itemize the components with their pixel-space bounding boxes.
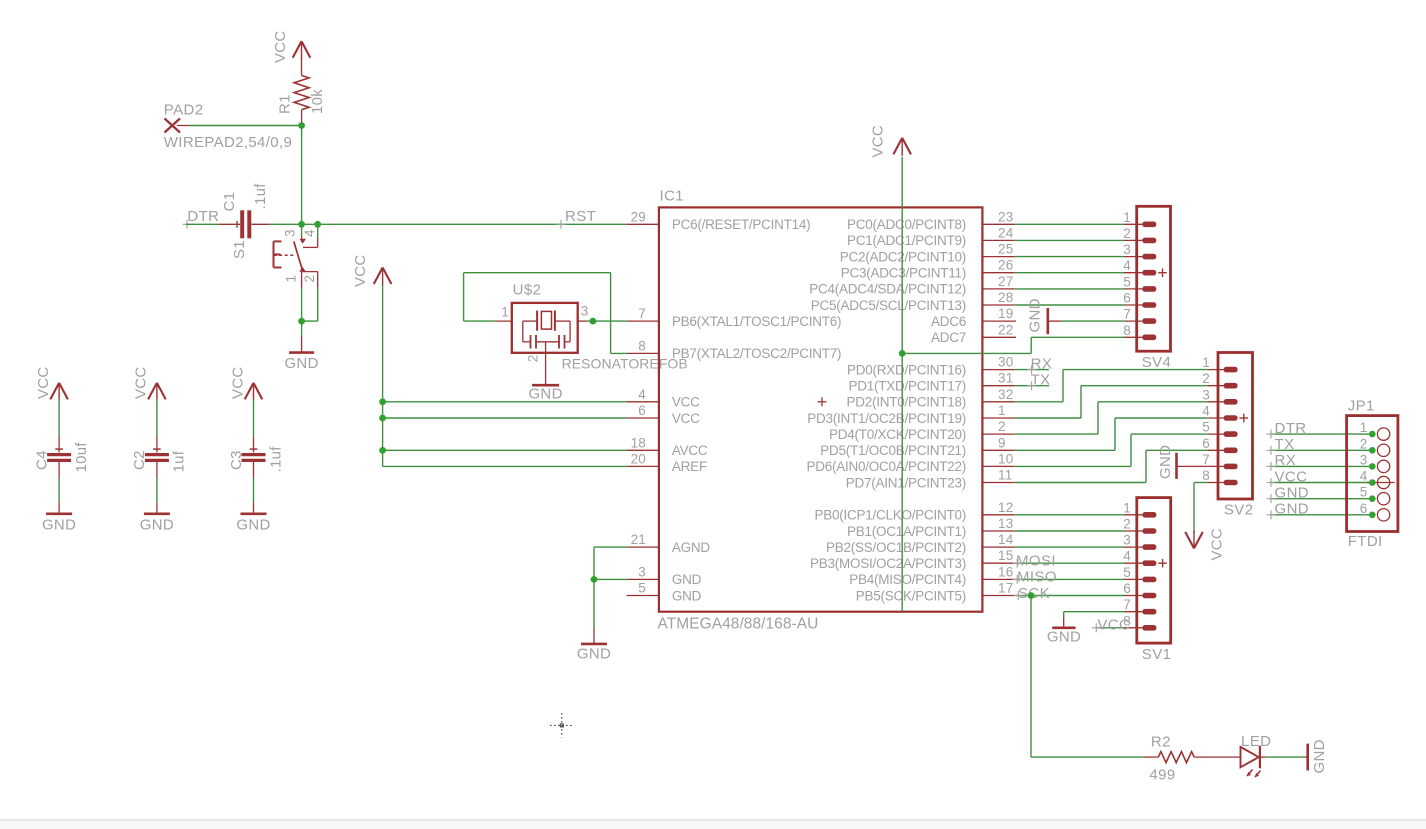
svg-text:MISO: MISO (1017, 569, 1057, 586)
svg-text:GND: GND (528, 385, 562, 402)
svg-text:FTDI: FTDI (1348, 533, 1383, 550)
svg-text:12: 12 (998, 500, 1013, 515)
svg-text:3: 3 (1123, 533, 1131, 548)
svg-text:PC3(ADC3/PCINT11): PC3(ADC3/PCINT11) (841, 266, 966, 281)
svg-text:PB1(OC1A/PCINT1): PB1(OC1A/PCINT1) (847, 524, 966, 539)
svg-text:VCC: VCC (229, 366, 246, 399)
svg-text:.1uf: .1uf (252, 183, 269, 210)
svg-text:GND: GND (1047, 629, 1081, 646)
svg-text:PB0(ICP1/CLKO/PCINT0): PB0(ICP1/CLKO/PCINT0) (814, 508, 966, 523)
svg-text:29: 29 (631, 209, 646, 224)
svg-text:AREF: AREF (672, 459, 707, 474)
svg-text:4: 4 (1123, 258, 1131, 273)
svg-text:6: 6 (638, 403, 646, 418)
svg-text:4: 4 (1360, 469, 1368, 484)
svg-text:20: 20 (631, 451, 646, 466)
svg-text:SV1: SV1 (1142, 646, 1172, 663)
svg-text:9: 9 (998, 435, 1006, 450)
svg-text:24: 24 (998, 225, 1014, 240)
svg-text:GND: GND (1275, 485, 1310, 502)
svg-text:R1: R1 (276, 94, 293, 114)
svg-text:7: 7 (1123, 307, 1131, 322)
svg-text:4: 4 (302, 229, 317, 237)
svg-text:31: 31 (998, 371, 1013, 386)
svg-text:10: 10 (998, 451, 1013, 466)
svg-text:GND: GND (140, 516, 174, 533)
svg-text:1: 1 (1202, 355, 1210, 370)
svg-text:1: 1 (1123, 210, 1131, 225)
svg-text:5: 5 (1123, 565, 1131, 580)
svg-text:S1: S1 (231, 240, 248, 259)
svg-text:AVCC: AVCC (672, 443, 708, 458)
svg-text:C1: C1 (221, 192, 238, 212)
svg-text:PC6(/RESET/PCINT14): PC6(/RESET/PCINT14) (672, 217, 811, 232)
svg-text:6: 6 (1123, 291, 1131, 306)
svg-text:13: 13 (998, 516, 1013, 531)
svg-text:5: 5 (1202, 420, 1210, 435)
svg-text:PD3(INT1/OC2B/PCINT19): PD3(INT1/OC2B/PCINT19) (807, 411, 966, 426)
svg-text:PB5(SCK/PCINT5): PB5(SCK/PCINT5) (856, 588, 966, 603)
svg-text:5: 5 (1123, 274, 1131, 289)
svg-text:PB4(MISO/PCINT4): PB4(MISO/PCINT4) (849, 572, 966, 587)
svg-text:VCC: VCC (672, 395, 700, 410)
svg-text:1uf: 1uf (171, 450, 188, 472)
svg-text:3: 3 (1123, 242, 1131, 257)
svg-text:RX: RX (1275, 452, 1297, 469)
svg-text:PC5(ADC5/SCL/PCINT13): PC5(ADC5/SCL/PCINT13) (811, 298, 966, 313)
svg-text:3: 3 (1202, 387, 1210, 402)
svg-text:4: 4 (1123, 549, 1131, 564)
svg-text:30: 30 (998, 355, 1013, 370)
svg-text:C2: C2 (131, 450, 148, 470)
svg-text:2: 2 (1123, 226, 1131, 241)
svg-text:6: 6 (1360, 501, 1368, 516)
svg-text:LED: LED (1241, 733, 1271, 750)
svg-text:4: 4 (638, 387, 646, 402)
svg-text:PD1(TXD/PCINT17): PD1(TXD/PCINT17) (848, 379, 966, 394)
svg-text:PD5(T1/OC0B/PCINT21): PD5(T1/OC0B/PCINT21) (820, 443, 966, 458)
svg-text:3: 3 (638, 564, 646, 579)
svg-text:2: 2 (1202, 371, 1210, 386)
svg-text:VCC: VCC (1275, 468, 1308, 485)
svg-text:PB3(MOSI/OC2A/PCINT3): PB3(MOSI/OC2A/PCINT3) (810, 556, 966, 571)
svg-text:U$2: U$2 (513, 282, 542, 299)
svg-text:11: 11 (998, 468, 1012, 483)
svg-text:GND: GND (672, 588, 702, 603)
svg-text:16: 16 (998, 564, 1013, 579)
svg-text:GND: GND (672, 572, 702, 587)
svg-text:GND: GND (1275, 501, 1310, 518)
svg-text:26: 26 (998, 258, 1013, 273)
svg-text:7: 7 (1202, 452, 1210, 467)
svg-text:IC1: IC1 (660, 188, 684, 205)
svg-text:PB7(XTAL2/TOSC2/PCINT7): PB7(XTAL2/TOSC2/PCINT7) (672, 346, 841, 361)
svg-text:10uf: 10uf (73, 442, 90, 473)
svg-text:8: 8 (1202, 468, 1210, 483)
svg-text:32: 32 (998, 387, 1013, 402)
svg-text:7: 7 (638, 306, 646, 321)
svg-text:GND: GND (1311, 739, 1328, 773)
svg-text:PD0(RXD/PCINT16): PD0(RXD/PCINT16) (847, 362, 966, 377)
svg-text:VCC: VCC (35, 366, 52, 399)
svg-text:8: 8 (638, 338, 646, 353)
svg-text:PAD2: PAD2 (164, 102, 204, 119)
svg-text:3: 3 (1360, 452, 1368, 467)
svg-text:VCC: VCC (133, 366, 150, 399)
svg-text:8: 8 (1123, 323, 1131, 338)
svg-text:TX: TX (1275, 436, 1295, 453)
svg-text:1: 1 (998, 403, 1006, 418)
svg-text:5: 5 (1360, 485, 1368, 500)
svg-text:JP1: JP1 (1348, 398, 1375, 415)
svg-text:WIREPAD2,54/0,9: WIREPAD2,54/0,9 (164, 134, 292, 151)
svg-text:DTR: DTR (1275, 420, 1307, 437)
svg-text:GND: GND (1026, 298, 1043, 332)
svg-text:2: 2 (1123, 517, 1131, 532)
svg-text:SV4: SV4 (1142, 354, 1172, 371)
svg-text:22: 22 (998, 322, 1013, 337)
svg-text:PB2(SS/OC1B/PCINT2): PB2(SS/OC1B/PCINT2) (826, 540, 966, 555)
svg-text:SCK: SCK (1018, 585, 1050, 602)
svg-text:PD4(T0/XCK/PCINT20): PD4(T0/XCK/PCINT20) (829, 427, 966, 442)
svg-text:18: 18 (631, 435, 646, 450)
svg-text:GND: GND (577, 646, 611, 663)
svg-text:PC0(ADC0/PCINT8): PC0(ADC0/PCINT8) (847, 217, 966, 232)
svg-text:DTR: DTR (187, 208, 219, 225)
svg-text:.1uf: .1uf (267, 446, 284, 473)
svg-text:VCC: VCC (672, 411, 700, 426)
svg-text:2: 2 (1360, 436, 1368, 451)
svg-text:14: 14 (998, 532, 1014, 547)
svg-text:6: 6 (1123, 581, 1131, 596)
svg-text:ADC7: ADC7 (931, 330, 966, 345)
svg-text:2: 2 (302, 275, 317, 283)
svg-text:27: 27 (998, 274, 1013, 289)
svg-text:28: 28 (998, 290, 1013, 305)
svg-text:RESONATOREFOB: RESONATOREFOB (562, 356, 688, 372)
svg-text:VCC: VCC (1208, 528, 1225, 561)
svg-text:PC4(ADC4/SDA/PCINT12): PC4(ADC4/SDA/PCINT12) (809, 282, 966, 297)
svg-text:C3: C3 (228, 450, 245, 470)
svg-text:17: 17 (998, 581, 1013, 596)
svg-text:SV2: SV2 (1224, 502, 1254, 519)
svg-text:23: 23 (998, 209, 1013, 224)
svg-text:VCC: VCC (869, 125, 886, 158)
svg-text:4: 4 (1202, 404, 1210, 419)
svg-text:25: 25 (998, 242, 1013, 257)
svg-text:6: 6 (1202, 436, 1210, 451)
svg-text:AGND: AGND (672, 540, 711, 555)
svg-text:PD6(AIN0/OC0A/PCINT22): PD6(AIN0/OC0A/PCINT22) (806, 459, 966, 474)
svg-text:1: 1 (501, 304, 509, 319)
svg-text:ADC6: ADC6 (931, 314, 966, 329)
svg-text:7: 7 (1123, 597, 1131, 612)
svg-text:R2: R2 (1151, 734, 1171, 751)
svg-text:1: 1 (1123, 500, 1131, 515)
svg-text:1: 1 (1360, 420, 1368, 435)
svg-text:PD2(INT0/PCINT18): PD2(INT0/PCINT18) (846, 395, 966, 410)
svg-text:1: 1 (283, 275, 298, 283)
svg-text:VCC: VCC (352, 254, 369, 287)
svg-text:2: 2 (525, 354, 540, 362)
svg-text:PD7(AIN1/PCINT23): PD7(AIN1/PCINT23) (846, 475, 966, 490)
svg-text:VCC: VCC (272, 30, 289, 63)
svg-text:2: 2 (998, 419, 1006, 434)
svg-text:RST: RST (565, 208, 596, 225)
svg-text:VCC: VCC (1097, 617, 1130, 634)
svg-text:3: 3 (282, 229, 297, 237)
svg-text:10k: 10k (309, 89, 326, 114)
svg-text:PB6(XTAL1/TOSC1/PCINT6): PB6(XTAL1/TOSC1/PCINT6) (672, 314, 841, 329)
svg-text:GND: GND (42, 516, 76, 533)
svg-text:5: 5 (638, 581, 646, 596)
svg-text:GND: GND (1157, 445, 1174, 479)
svg-text:15: 15 (998, 548, 1013, 563)
svg-text:C4: C4 (33, 450, 50, 470)
svg-text:MOSI: MOSI (1016, 553, 1056, 570)
svg-text:ATMEGA48/88/168-AU: ATMEGA48/88/168-AU (658, 616, 819, 633)
svg-text:GND: GND (284, 355, 318, 372)
svg-text:PC1(ADC1/PCINT9): PC1(ADC1/PCINT9) (847, 233, 966, 248)
svg-text:GND: GND (236, 516, 270, 533)
svg-text:21: 21 (631, 532, 646, 547)
svg-text:3: 3 (581, 304, 589, 319)
svg-text:499: 499 (1149, 767, 1175, 784)
svg-text:19: 19 (998, 306, 1013, 321)
